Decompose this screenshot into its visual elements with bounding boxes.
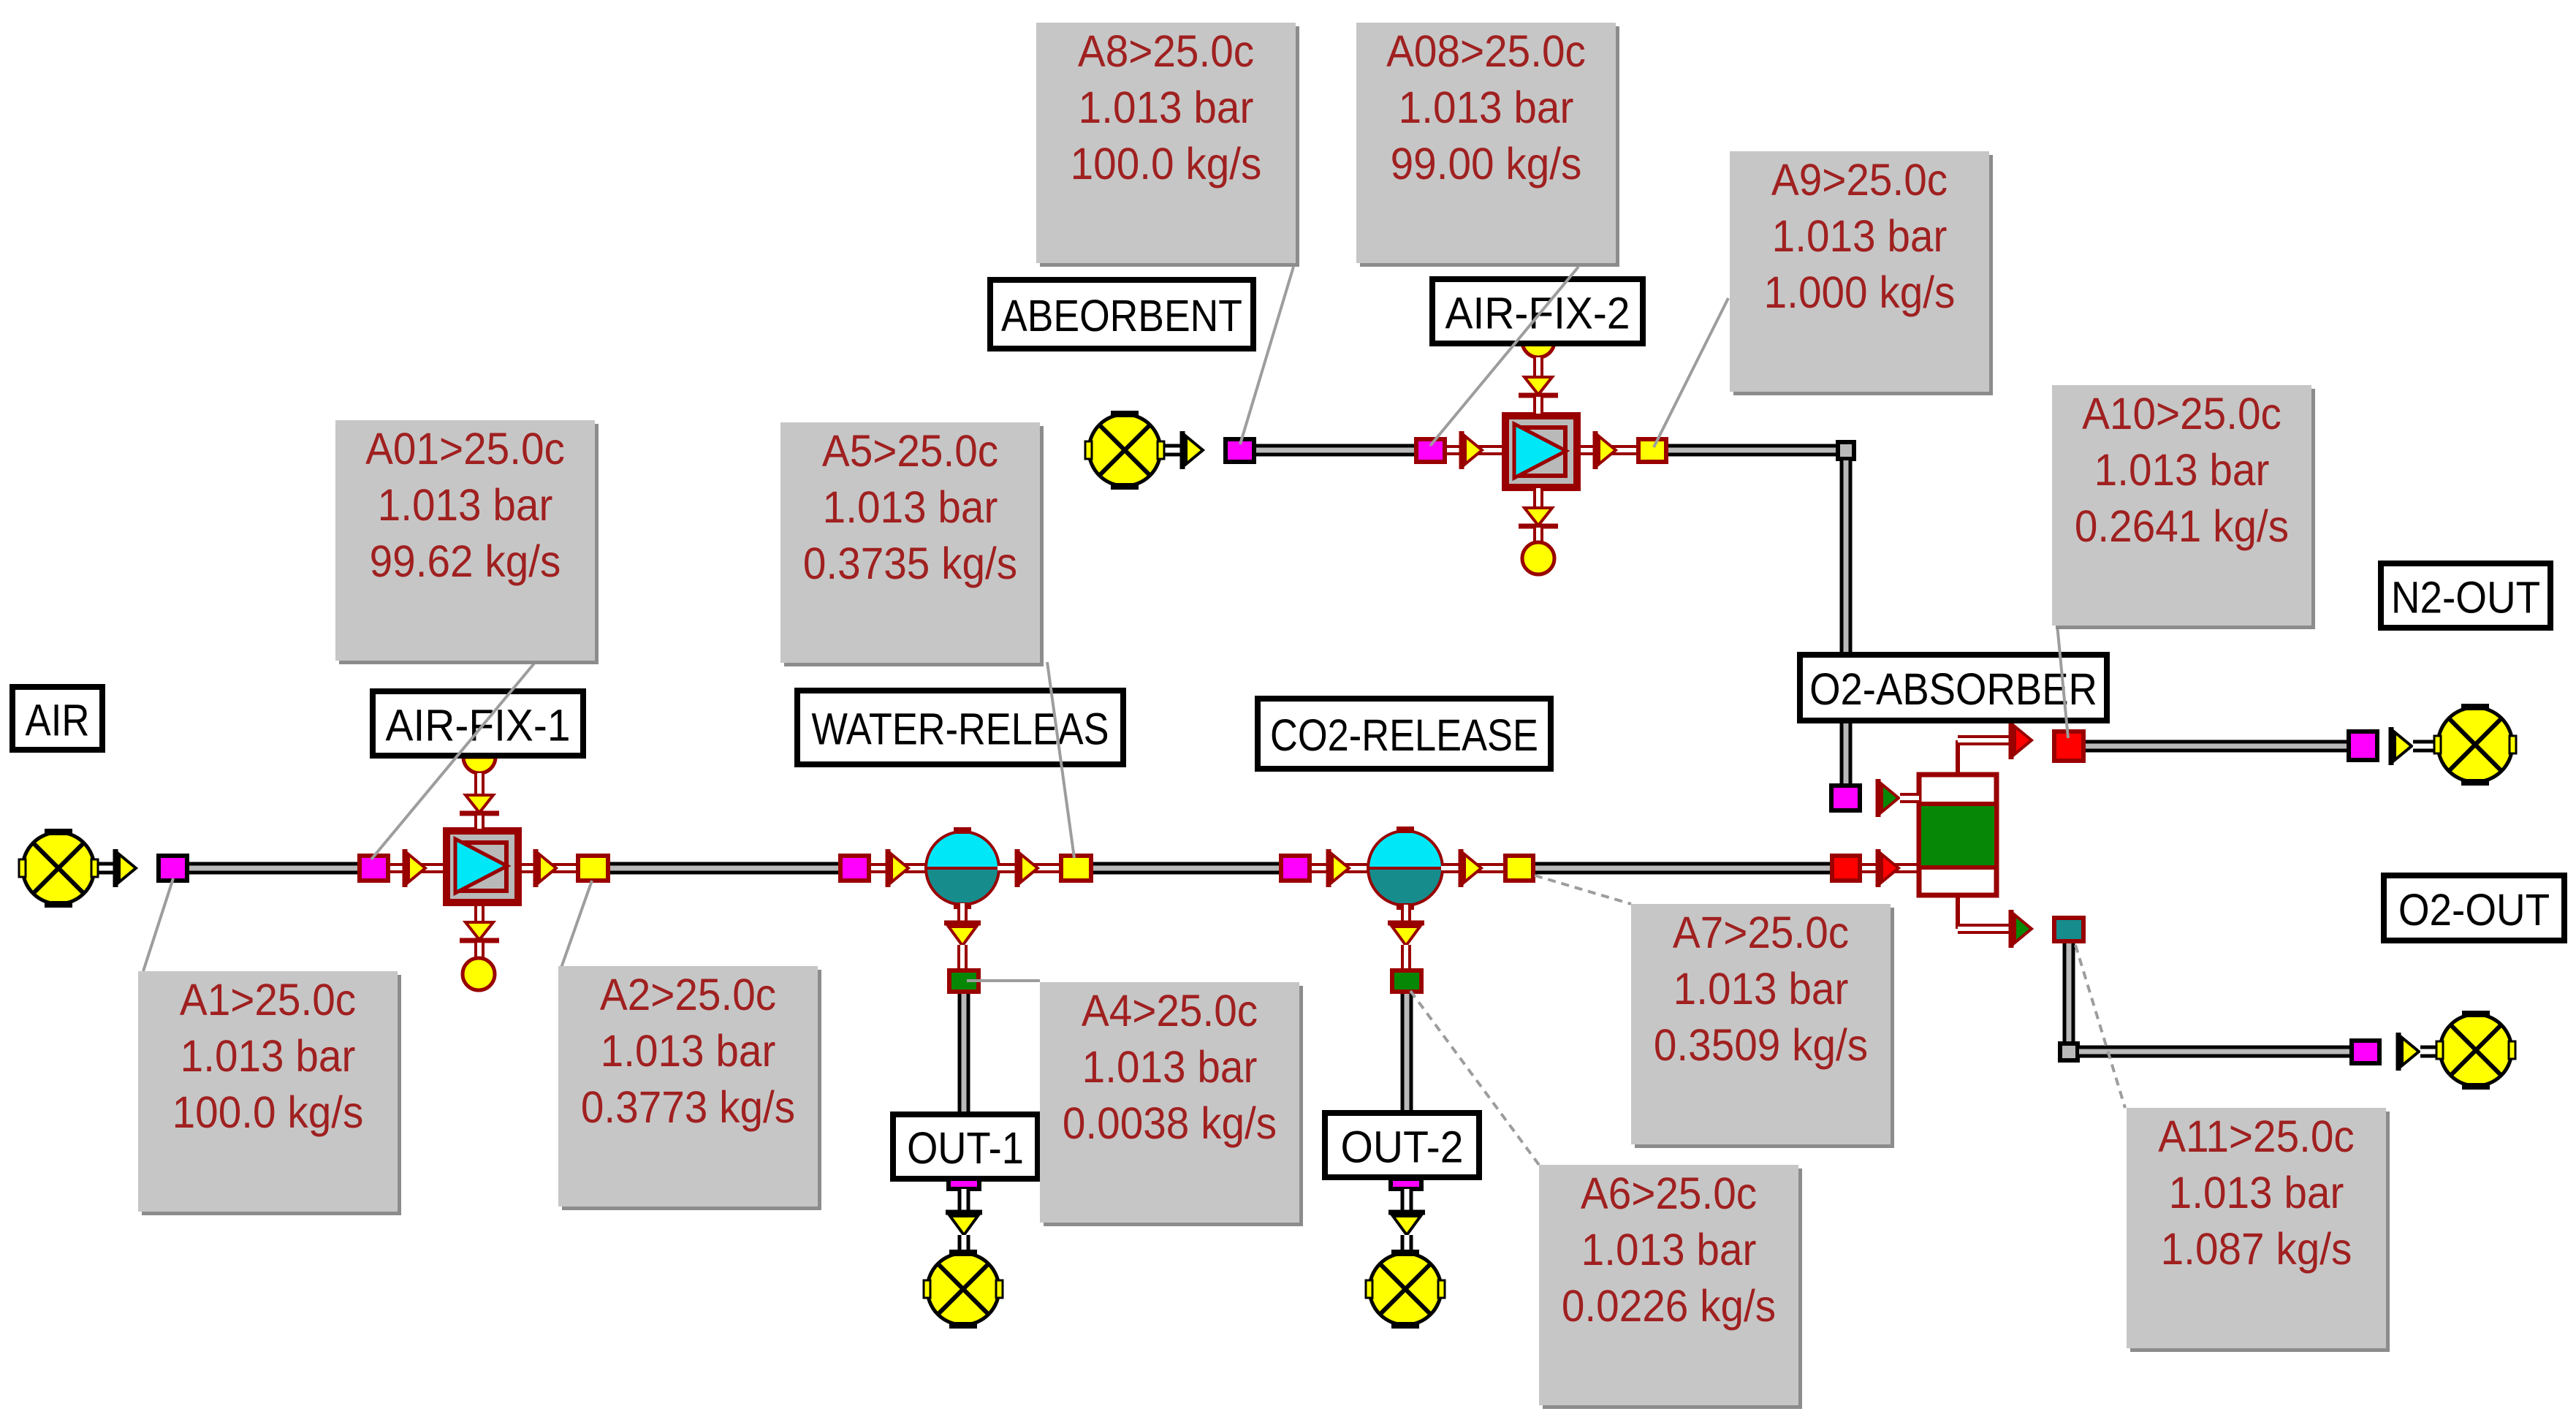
stream marker under OUT-2 (magenta) <box>1391 1179 1421 1189</box>
leader line A10 <box>2057 625 2068 738</box>
wire: port pipe into CO2-RELEASE <box>1312 863 1370 873</box>
wire: pipe into OUT-1 sink <box>958 1235 970 1255</box>
wire: stream pipe A11 horizontal <box>2079 1046 2352 1058</box>
port marker under AIR-FIX-1 label <box>463 757 495 773</box>
svg-text:1.013 bar: 1.013 bar <box>1079 83 1254 132</box>
wire: port pipe out of CO2-RELEASE <box>1441 863 1505 873</box>
sink N2-OUT symbol <box>2434 704 2516 786</box>
leader line A5 <box>1047 662 1074 858</box>
svg-text:OUT-2: OUT-2 <box>1341 1122 1464 1172</box>
wire: pipe into O2-OUT sink <box>2420 1046 2442 1058</box>
stream A10 start marker (red) <box>2054 731 2083 761</box>
svg-text:N2-OUT: N2-OUT <box>2391 573 2540 623</box>
label box O2-OUT <box>2384 875 2564 940</box>
arrow into OUT-1 sink <box>946 1212 982 1235</box>
stream A8 start marker (magenta) <box>1226 439 1254 462</box>
wire: AIR-FIX-1 top port pipe <box>474 773 485 797</box>
stream A1 start marker (magenta) <box>159 856 187 881</box>
arrow into AIR-FIX-2 top port <box>1519 377 1558 395</box>
wire: port pipe into AIR-FIX-2 <box>1447 445 1503 455</box>
arrow on CO2-RELEASE bottom outlet <box>1388 923 1424 946</box>
svg-text:0.3509 kg/s: 0.3509 kg/s <box>1654 1021 1868 1070</box>
svg-text:99.62 kg/s: 99.62 kg/s <box>370 537 561 586</box>
arrow into O2-ABSORBER bottom inlet <box>1878 849 1899 887</box>
leader line A1 <box>143 878 173 971</box>
svg-text:0.3773 kg/s: 0.3773 kg/s <box>581 1083 795 1132</box>
stream A7 end marker (red) <box>1832 856 1860 881</box>
wire: port pipe into AIR-FIX-1 <box>390 863 444 873</box>
arrow on O2-ABSORBER top outlet <box>2011 721 2032 759</box>
data box A8 <box>1036 23 1299 267</box>
svg-text:A9>25.0c: A9>25.0c <box>1771 156 1948 205</box>
data box A10 <box>2052 385 2315 629</box>
wire: pipe from ABEORBENT source <box>1155 444 1184 457</box>
arrow into N2-OUT sink <box>2391 727 2412 765</box>
svg-text:AIR-FIX-2: AIR-FIX-2 <box>1445 289 1630 338</box>
svg-text:1.013 bar: 1.013 bar <box>378 481 553 530</box>
wire: stream pipe A11 vertical <box>2063 943 2075 1045</box>
wire: pipe to OUT-1 marker <box>957 945 968 970</box>
svg-text:1.013 bar: 1.013 bar <box>823 483 998 532</box>
label box AIR-FIX-1 <box>373 691 583 756</box>
unconnected port circle below AIR-FIX-2 <box>1522 542 1554 574</box>
arrow into CO2-RELEASE <box>1329 849 1349 887</box>
port marker under AIR-FIX-2 label <box>1522 341 1554 357</box>
data box A1 <box>138 971 401 1215</box>
arrow on AIR-FIX-1 bottom port <box>460 922 499 940</box>
wire: AIR-FIX-2 top port pipe <box>1533 357 1543 379</box>
stream A9 end marker (magenta) <box>1831 786 1860 810</box>
data box A08 <box>1356 23 1619 267</box>
svg-text:1.013 bar: 1.013 bar <box>1673 965 1849 1014</box>
leader line A11 <box>2075 945 2125 1108</box>
arrow into AIR-FIX-2 <box>1462 431 1482 469</box>
stream A2 end marker (magenta) <box>840 856 869 881</box>
svg-text:1.013 bar: 1.013 bar <box>601 1027 776 1076</box>
stream A10 end marker (magenta) <box>2349 731 2377 760</box>
svg-text:1.013 bar: 1.013 bar <box>2094 446 2270 495</box>
arrow out of WATER-RELEAS <box>1017 849 1038 887</box>
svg-text:A10>25.0c: A10>25.0c <box>2082 389 2281 438</box>
unit CO2-RELEASE flash drum <box>1368 826 1443 910</box>
wire: O2-ABSORBER top outlet stub <box>1958 740 2013 776</box>
wire: AIR-FIX-2 bottom port pipe lower <box>1533 528 1543 542</box>
wire: stream pipe A4 to OUT-1 <box>958 994 970 1116</box>
stream A11 end marker (magenta) <box>2352 1041 2379 1063</box>
data box A2 <box>558 966 821 1210</box>
svg-text:A08>25.0c: A08>25.0c <box>1386 27 1586 76</box>
wire: stream pipe A9 horizontal <box>1668 444 1846 457</box>
arrow out of CO2-RELEASE <box>1461 849 1481 887</box>
svg-text:A7>25.0c: A7>25.0c <box>1673 908 1849 957</box>
svg-text:0.2641 kg/s: 0.2641 kg/s <box>2075 502 2289 551</box>
label box O2-ABSORBER <box>1800 655 2107 721</box>
svg-text:1.013 bar: 1.013 bar <box>2169 1168 2344 1217</box>
label box N2-OUT <box>2381 563 2550 628</box>
svg-text:99.00 kg/s: 99.00 kg/s <box>1391 140 1582 189</box>
svg-text:ABEORBENT: ABEORBENT <box>1001 292 1242 341</box>
arrow on ABEORBENT source outlet <box>1182 431 1203 469</box>
svg-text:1.000 kg/s: 1.000 kg/s <box>1764 268 1956 317</box>
arrow into AIR-FIX-1 top port <box>460 795 499 813</box>
svg-text:100.0 kg/s: 100.0 kg/s <box>1071 140 1262 189</box>
junction elbow of stream A9 <box>1838 442 1854 459</box>
wire: stream pipe A6 to OUT-2 <box>1401 994 1413 1114</box>
arrow on AIR-FIX-2 bottom port <box>1519 508 1558 526</box>
label box OUT-1 <box>893 1114 1038 1179</box>
arrow on WATER-RELEAS bottom outlet <box>944 923 981 946</box>
stream A5 start marker (yellow) <box>1061 856 1091 881</box>
wire: pipe below OUT-1 <box>958 1189 970 1213</box>
label box WATER-RELEAS <box>797 691 1123 764</box>
data box A7 <box>1631 904 1894 1148</box>
wire: stream pipe A8 <box>1256 444 1416 457</box>
stream marker under OUT-1 (magenta) <box>949 1179 979 1189</box>
svg-text:AIR: AIR <box>26 696 90 745</box>
svg-text:100.0 kg/s: 100.0 kg/s <box>172 1088 364 1137</box>
wire: stream pipe A9 vertical <box>1840 460 1853 785</box>
stream A9 start marker (yellow) <box>1638 439 1666 462</box>
svg-text:1.013 bar: 1.013 bar <box>1581 1225 1757 1274</box>
wire: stream pipe A1 <box>189 862 360 875</box>
wire: port pipe into WATER-RELEAS <box>871 863 928 873</box>
wire: pipe into OUT-2 sink <box>1401 1235 1413 1255</box>
svg-text:AIR-FIX-1: AIR-FIX-1 <box>386 701 571 750</box>
stream A7 start marker (yellow) <box>1505 856 1533 881</box>
junction elbow of stream A11 <box>2060 1044 2078 1060</box>
wire: stream pipe A2 <box>610 862 840 875</box>
data box A01 <box>335 420 599 664</box>
svg-text:1.013 bar: 1.013 bar <box>1772 212 1948 261</box>
stream A1 end marker (magenta) <box>360 856 388 881</box>
svg-text:OUT-1: OUT-1 <box>907 1124 1024 1174</box>
svg-text:CO2-RELEASE: CO2-RELEASE <box>1270 711 1538 761</box>
unconnected port circle below AIR-FIX-1 <box>463 958 495 990</box>
sink OUT-2 symbol <box>1366 1250 1445 1329</box>
leader line A6 <box>1410 991 1539 1165</box>
wire: stream pipe A7 <box>1535 862 1831 875</box>
arrow on AIR source outlet <box>115 849 136 887</box>
arrow into WATER-RELEAS <box>888 849 908 887</box>
wire: WATER-RELEAS bottom port pipe <box>957 903 968 924</box>
leader line A9 <box>1654 298 1728 447</box>
wire: AIR-FIX-1 top port pipe lower <box>474 816 485 829</box>
svg-text:1.087 kg/s: 1.087 kg/s <box>2161 1225 2352 1274</box>
wire: port pipe out of AIR-FIX-2 <box>1581 445 1638 455</box>
leader line A2 <box>561 881 592 968</box>
source AIR sink-symbol <box>19 829 98 908</box>
data box A6 <box>1539 1165 1802 1409</box>
wire: pipe below OUT-2 <box>1401 1189 1413 1213</box>
sink O2-OUT symbol <box>2436 1011 2515 1090</box>
wire: pipe into N2-OUT sink <box>2413 740 2441 753</box>
stream A2 start marker (yellow) <box>578 856 608 881</box>
label box OUT-2 <box>1325 1113 1479 1177</box>
svg-text:WATER-RELEAS: WATER-RELEAS <box>811 705 1109 755</box>
wire: port pipe out of WATER-RELEAS <box>998 863 1061 873</box>
svg-text:O2-OUT: O2-OUT <box>2398 885 2550 935</box>
svg-text:A01>25.0c: A01>25.0c <box>365 425 565 474</box>
arrow out of AIR-FIX-1 <box>536 849 556 887</box>
data box A11 <box>2127 1108 2390 1352</box>
leader line A01 <box>371 660 537 859</box>
unit WATER-RELEAS flash drum <box>926 827 999 909</box>
data box A9 <box>1730 151 1993 395</box>
arrow out of AIR-FIX-2 <box>1595 431 1616 469</box>
wire: pipe to OUT-2 marker <box>1401 945 1411 970</box>
wire: pipe from AIR source <box>88 862 117 875</box>
stream A4 start marker (green) <box>949 970 979 992</box>
data box A4 <box>1040 982 1303 1226</box>
svg-text:A6>25.0c: A6>25.0c <box>1581 1169 1757 1218</box>
source ABEORBENT sink-symbol <box>1085 411 1164 490</box>
svg-text:1.013 bar: 1.013 bar <box>181 1032 356 1081</box>
svg-text:0.0226 kg/s: 0.0226 kg/s <box>1562 1282 1776 1331</box>
stream marker before CO2-RELEASE (magenta) <box>1281 856 1310 881</box>
svg-text:A5>25.0c: A5>25.0c <box>822 427 998 476</box>
leader line A7 <box>1535 875 1631 904</box>
arrow into O2-ABSORBER top inlet <box>1878 779 1899 817</box>
leader line A4 <box>967 979 1040 982</box>
svg-text:0.0038 kg/s: 0.0038 kg/s <box>1063 1099 1277 1148</box>
wire: AIR-FIX-1 bottom port pipe lower <box>474 943 485 957</box>
svg-text:A8>25.0c: A8>25.0c <box>1078 27 1254 76</box>
wire: O2-ABSORBER bottom outlet stub <box>1958 894 2013 929</box>
wire: stream pipe A10 to N2-OUT <box>2086 740 2349 753</box>
wire: AIR-FIX-2 top port pipe lower <box>1533 397 1543 414</box>
svg-text:A2>25.0c: A2>25.0c <box>600 970 776 1019</box>
unit AIR-FIX-2 icon <box>1502 412 1581 491</box>
arrow on O2-ABSORBER bottom outlet <box>2011 910 2032 948</box>
stream A11 start marker (teal) <box>2054 918 2083 941</box>
svg-text:A4>25.0c: A4>25.0c <box>1082 987 1258 1035</box>
wire: port pipe into O2-ABSORBER bottom inlet <box>1862 863 1919 873</box>
arrow into OUT-2 sink <box>1388 1212 1425 1235</box>
svg-text:1.013 bar: 1.013 bar <box>1399 83 1574 132</box>
arrow into AIR-FIX-1 <box>405 849 425 887</box>
svg-text:A11>25.0c: A11>25.0c <box>2158 1112 2355 1161</box>
wire: CO2-RELEASE bottom port pipe <box>1401 905 1411 924</box>
data box A5 <box>780 422 1044 666</box>
wire: stream pipe to CO2-RELEASE <box>1093 862 1281 875</box>
leader line A8 <box>1240 267 1293 444</box>
label box ABEORBENT <box>990 280 1253 349</box>
svg-text:1.013 bar: 1.013 bar <box>1082 1043 1258 1092</box>
svg-text:O2-ABSORBER: O2-ABSORBER <box>1809 665 2097 714</box>
wire: port pipe out of AIR-FIX-1 <box>522 863 577 873</box>
leader line A08 <box>1430 267 1578 446</box>
arrow into O2-OUT sink <box>2398 1033 2419 1071</box>
label box AIR-FIX-2 <box>1432 279 1643 343</box>
wire: port pipe into O2-ABSORBER top inlet <box>1900 793 1919 803</box>
svg-text:0.3735 kg/s: 0.3735 kg/s <box>803 539 1017 588</box>
svg-text:A1>25.0c: A1>25.0c <box>180 976 356 1025</box>
sink OUT-1 symbol <box>924 1250 1003 1329</box>
wire: AIR-FIX-2 bottom port pipe <box>1533 488 1543 509</box>
stream A6 start marker (green) <box>1392 970 1421 992</box>
label box AIR <box>12 687 102 750</box>
unit AIR-FIX-1 icon <box>443 827 522 906</box>
unit O2-ABSORBER column <box>1919 775 1996 895</box>
label box CO2-RELEASE <box>1258 699 1551 769</box>
stream A8 end marker (magenta) <box>1416 439 1445 462</box>
wire: AIR-FIX-1 bottom port pipe <box>474 906 485 924</box>
